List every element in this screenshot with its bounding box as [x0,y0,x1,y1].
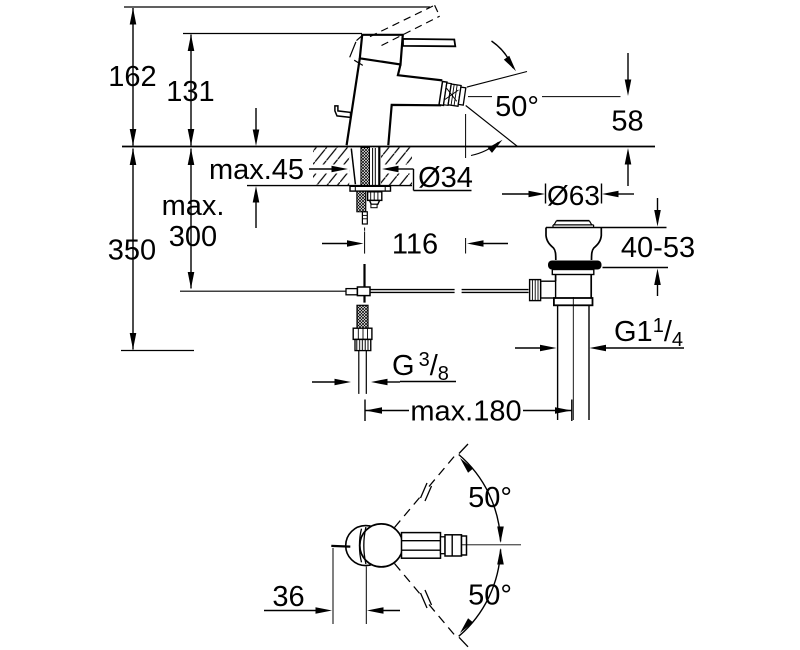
wire top reference line (lever max height) [124,6,430,8]
pop-up waste: flange under seal [552,270,594,275]
svg-text:131: 131 [166,76,214,108]
wire max300 bottom reference [180,290,346,292]
svg-text:58: 58 [611,106,643,138]
top view: lower 50 degree arc [459,549,501,636]
svg-text:162: 162 [108,61,156,93]
supply hose nut below deck [368,192,382,201]
dimension max.300 [162,149,225,289]
white band for Ø34 arrows across hatch [313,165,349,174]
top view: drop line from pin [332,548,334,624]
aerator (side view, tilted) [439,82,466,109]
dimension 36 [264,581,400,614]
faucet body (side view) [347,58,443,145]
svg-text:max.: max. [162,190,225,222]
threaded stud in deck [361,148,370,187]
deck hatch left block [313,148,349,186]
pop-up waste: centerline [572,297,574,420]
pop-up waste: rubber seal ring [548,261,602,270]
svg-text:116: 116 [392,229,438,261]
mounting washer under deck [350,186,391,191]
dimension 50 degree spout swivel (side view) [466,41,621,156]
knurled coupling ring [355,339,371,350]
pop-up waste: cap [557,220,590,222]
pop-up rod knob on body [335,106,351,118]
faucet lever dashed (raised position) [370,5,440,45]
top view: lower dashed swivel ray [395,564,469,647]
pop-up waste: top flange + funnel [546,228,556,261]
svg-text:300: 300 [169,221,217,253]
top view: lever grip [445,535,462,556]
svg-text:350: 350 [108,235,156,267]
svg-text:50°: 50° [468,482,512,514]
faucet lever handle (side view, horizontal) [403,39,455,46]
deck hole: body taper line [351,149,355,185]
dimension Ø63 [502,180,634,211]
pop-up waste: knurled adjuster knob [530,280,541,301]
top view: body circle [346,526,386,566]
svg-text:max.180: max.180 [410,396,521,428]
pop-up waste: tailpipe [557,305,559,420]
pop-up vertical rod [363,264,365,303]
pop-up waste: bottom collar [554,298,593,305]
dimension 131 [166,35,214,146]
faucet head (side view) [360,35,403,65]
top view: upper 50 degree arc [459,455,501,542]
dimension 58 [611,53,643,186]
node aerator projection tick at 116 dim [465,238,467,254]
G3/8 threaded nipple [357,305,368,328]
dimension max.180 [365,396,572,428]
top view: upper dashed swivel ray [395,444,469,528]
dimension G 3/8 [312,349,456,385]
top view: pop-up rod pin [331,545,350,548]
pop-up horizontal rod [370,290,529,293]
threaded mounting stud below washer [357,191,366,212]
faucet centerline below deck [364,228,366,231]
pop-up waste: side port [541,281,556,298]
svg-text:36: 36 [272,581,304,613]
supply hose tube [358,351,360,394]
deck hatch right block [381,148,412,186]
dimension Ø34 (deck hole) [309,162,473,194]
top view: handle dome [360,524,403,567]
top view: lever end cap [462,536,467,555]
top view: dome chords [359,529,361,563]
top view: lever neck [441,537,446,554]
svg-text:50°: 50° [468,580,512,612]
dimension 350 [108,149,156,350]
wire deck bottom line [247,185,412,187]
dimension 40-53 [546,198,695,296]
supply tube in deck [372,148,374,186]
hose coupling nut [353,328,372,339]
pop-up waste: body [555,275,557,282]
stud tip [362,212,367,224]
dimension max.45 (deck thickness) [209,108,304,228]
top view: lever shaft [402,533,441,559]
wire deck top line [122,146,655,148]
svg-text:max.45: max.45 [209,154,304,186]
dimension G1 1/4 [515,315,684,351]
svg-text:40-53: 40-53 [621,232,695,264]
faucet head dashed rotated outline [350,35,363,65]
svg-text:50°: 50° [495,91,539,123]
svg-text:Ø63: Ø63 [547,180,600,211]
node aerator projection line [465,114,467,158]
top view: drop line from body center [365,567,367,625]
svg-text:Ø34: Ø34 [418,162,473,194]
pop-up rod joint block [346,289,357,295]
deck hole right edge [378,147,380,185]
wire 350 bottom reference [121,350,194,352]
wire reference line (body top 131) [183,33,362,35]
dimension 116 [322,229,508,261]
top view: horizontal centerline [461,544,521,546]
dimension 162 [108,8,156,146]
